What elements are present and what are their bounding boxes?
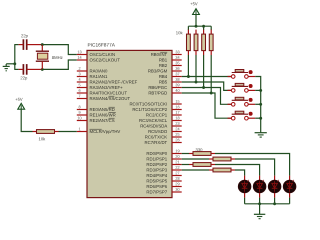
wire RB5 to button 2 xyxy=(182,82,232,90)
U1 pin 10 stub xyxy=(77,120,87,122)
svg-text:RC1/T1OSI/CCP2: RC1/T1OSI/CCP2 xyxy=(132,107,167,112)
IC U1 PIC16F877A body xyxy=(87,50,172,197)
ground crystal side xyxy=(5,64,7,66)
svg-text:RB5: RB5 xyxy=(159,79,168,84)
svg-text:5: 5 xyxy=(78,83,80,87)
R2 pin stub bottom xyxy=(195,51,197,55)
svg-text:RD5/PSP5: RD5/PSP5 xyxy=(146,178,167,183)
U1 pin 1 stub xyxy=(77,131,87,133)
U1 pin 25 stub xyxy=(172,136,182,138)
R3 pin stub top xyxy=(203,30,205,34)
wire R9 to LED D1 xyxy=(235,170,245,176)
svg-text:22p: 22p xyxy=(20,75,28,80)
svg-text:RD6/PSP6: RD6/PSP6 xyxy=(146,184,167,189)
ground LEDs xyxy=(259,204,261,215)
svg-text:13: 13 xyxy=(77,50,81,54)
svg-text:39: 39 xyxy=(175,83,179,87)
svg-text:RD0/PSP0: RD0/PSP0 xyxy=(146,151,167,156)
svg-text:10: 10 xyxy=(77,116,81,120)
wire RD1 to resistor xyxy=(182,158,209,160)
R9 pin stub right xyxy=(231,169,235,171)
svg-text:OSC1/CLKIN: OSC1/CLKIN xyxy=(89,52,115,57)
svg-text:RB3/PGM: RB3/PGM xyxy=(148,68,168,73)
wire LED D2 cathode to bus xyxy=(259,198,261,204)
svg-text:3: 3 xyxy=(78,72,80,76)
U1 pin 18 stub xyxy=(172,120,182,122)
junction R3 on RB6 wire xyxy=(202,86,205,89)
R4 pin stub top xyxy=(210,30,212,34)
svg-text:RD2/PSP2: RD2/PSP2 xyxy=(146,162,167,167)
wire RB4 to button 1 xyxy=(182,76,232,78)
resistor R3 10k pull-up xyxy=(202,34,206,51)
svg-text:25: 25 xyxy=(175,133,179,137)
svg-text:RB1: RB1 xyxy=(159,57,168,62)
push button SW4 xyxy=(228,117,232,119)
resistor R5 10k (MCLR pull-up) xyxy=(37,130,55,134)
wire RD2 to resistor xyxy=(182,164,189,166)
U1 pin 15 stub xyxy=(172,103,182,105)
svg-text:RA0/AN0: RA0/AN0 xyxy=(89,69,108,74)
R1 pin stub top xyxy=(187,30,189,34)
svg-text:30: 30 xyxy=(175,188,179,192)
svg-text:RC0/T1OSO/T1CKI: RC0/T1OSO/T1CKI xyxy=(129,101,167,106)
svg-text:34: 34 xyxy=(175,56,179,60)
svg-text:15: 15 xyxy=(175,100,179,104)
svg-text:26: 26 xyxy=(175,138,179,142)
R2 pin stub top xyxy=(195,30,197,34)
power +5V symbol (buttons) xyxy=(193,9,200,15)
wire bus drop col1 xyxy=(187,26,189,30)
svg-text:8MHz: 8MHz xyxy=(52,55,63,60)
crystal X1 8MHz xyxy=(41,45,43,52)
svg-text:16: 16 xyxy=(175,105,179,109)
svg-text:6: 6 xyxy=(78,89,80,93)
svg-text:RE1/AN6/WR: RE1/AN6/WR xyxy=(89,113,115,118)
LED D1 xyxy=(244,176,246,181)
svg-text:RD3/PSP3: RD3/PSP3 xyxy=(146,167,167,172)
R6 pin stub left xyxy=(189,153,193,155)
LED D4 xyxy=(289,176,291,181)
U1 pin 21 stub xyxy=(172,164,182,166)
R4 pin stub bottom xyxy=(210,51,212,55)
svg-text:22: 22 xyxy=(175,166,179,170)
U1 pin 33 stub xyxy=(172,54,182,56)
LED D2 xyxy=(259,176,261,181)
wire R1 to RB4 row xyxy=(187,55,189,77)
svg-text:OSC2/CLKOUT: OSC2/CLKOUT xyxy=(89,58,120,63)
junction R4 on RB7 wire xyxy=(210,92,213,95)
svg-text:RC7/RX/DT: RC7/RX/DT xyxy=(145,140,168,145)
pin label overline INT xyxy=(160,51,167,53)
push button SW2 xyxy=(228,89,232,91)
U1 pin 14 stub xyxy=(77,59,87,61)
pin label overline xyxy=(109,117,115,119)
wire button to bus xyxy=(255,89,261,91)
U1 pin 36 stub xyxy=(172,70,182,72)
svg-text:24: 24 xyxy=(175,127,179,131)
junction LED bus 1 xyxy=(258,202,261,205)
wire R2 to RB5 row xyxy=(195,55,197,82)
ground buttons xyxy=(255,132,267,134)
junction R2 on RB5 wire xyxy=(195,81,198,84)
resistor R4 10k pull-up xyxy=(209,34,213,51)
wire RD3 to resistor xyxy=(182,169,209,171)
wire ground tap xyxy=(6,63,15,65)
svg-text:4: 4 xyxy=(78,78,80,82)
svg-text:RC4/SDI/SDA: RC4/SDI/SDA xyxy=(140,123,167,128)
resistor R7 330 xyxy=(213,157,231,161)
U1 pin 8 stub xyxy=(77,109,87,111)
R6 pin stub right xyxy=(211,153,215,155)
resistor R6 330 xyxy=(193,152,211,156)
svg-text:37: 37 xyxy=(175,72,179,76)
U1 pin 2 stub xyxy=(77,70,87,72)
svg-text:RE0/AN5/RD: RE0/AN5/RD xyxy=(89,107,114,112)
svg-text:MCLR/Vpp/THV: MCLR/Vpp/THV xyxy=(89,129,120,134)
U1 pin 40 stub xyxy=(172,92,182,94)
wire LED D3 cathode to bus xyxy=(274,198,276,204)
svg-text:RA2/AN2/VREF-/CVREF: RA2/AN2/VREF-/CVREF xyxy=(89,80,137,85)
svg-text:10k: 10k xyxy=(38,136,46,141)
junction button bus xyxy=(259,117,262,120)
svg-text:36: 36 xyxy=(175,67,179,71)
junction crystal bottom xyxy=(41,68,44,71)
svg-text:1: 1 xyxy=(78,127,80,131)
svg-text:RC2/CCP1: RC2/CCP1 xyxy=(146,112,168,117)
junction bus col2 xyxy=(195,25,198,28)
R8 pin stub right xyxy=(211,164,215,166)
svg-text:2: 2 xyxy=(78,67,80,71)
R5 pin stub right xyxy=(55,131,59,133)
svg-text:RB2: RB2 xyxy=(159,63,168,68)
U1 pin 9 stub xyxy=(77,114,87,116)
U1 pin 4 stub xyxy=(77,81,87,83)
wire +5V bus xyxy=(188,25,211,27)
pin label overline xyxy=(109,95,115,97)
junction button bus xyxy=(259,103,262,106)
wire LED D1 cathode to bus xyxy=(244,198,246,204)
junction LED bus 2 xyxy=(273,202,276,205)
push button SW1 xyxy=(228,76,232,78)
R7 pin stub right xyxy=(231,158,235,160)
wire LED D4 cathode to bus xyxy=(289,198,291,204)
junction caps-ground xyxy=(13,62,16,65)
junction crystal top xyxy=(41,43,44,46)
pin label overline xyxy=(109,112,116,114)
svg-text:27: 27 xyxy=(175,171,179,175)
capacitor C1 22p xyxy=(22,39,24,50)
wire bus drop col4 xyxy=(210,26,212,30)
wire R7 to LED D3 xyxy=(235,159,275,176)
U1 pin 16 stub xyxy=(172,109,182,111)
wire RD0 to resistor xyxy=(182,153,189,155)
U1 pin 6 stub xyxy=(77,92,87,94)
wire R6 to LED D4 xyxy=(215,154,290,176)
wire bus drop col3 xyxy=(203,26,205,30)
U1 pin 7 stub xyxy=(77,98,87,100)
U1 pin 34 stub xyxy=(172,59,182,61)
wire C2 to crystal bottom xyxy=(27,68,43,70)
svg-text:23: 23 xyxy=(175,122,179,126)
junction button bus xyxy=(259,89,262,92)
junction bus col3 xyxy=(202,25,205,28)
wire button to bus xyxy=(255,103,261,105)
capacitor C2 22p xyxy=(22,64,24,75)
wire R3 to RB6 row xyxy=(203,55,205,88)
svg-text:38: 38 xyxy=(175,78,179,82)
wire LED ground bus xyxy=(245,203,290,205)
resistor R2 10k pull-up xyxy=(194,34,198,51)
U1 pin 17 stub xyxy=(172,114,182,116)
wire bus to ground xyxy=(260,118,262,133)
svg-text:33: 33 xyxy=(175,50,179,54)
svg-text:35: 35 xyxy=(175,61,179,65)
R5 pin stub left xyxy=(33,131,37,133)
R9 pin stub left xyxy=(209,169,213,171)
wire button bus right xyxy=(255,77,261,119)
svg-text:RB4: RB4 xyxy=(159,74,168,79)
U1 pin 23 stub xyxy=(172,125,182,127)
svg-text:RA3/AN3/VREF+: RA3/AN3/VREF+ xyxy=(89,85,123,90)
wire RB7 to button 4 xyxy=(182,93,232,118)
svg-text:28: 28 xyxy=(175,177,179,181)
U1 pin 20 stub xyxy=(172,158,182,160)
svg-text:17: 17 xyxy=(175,111,179,115)
U1 pin 13 stub xyxy=(77,54,87,56)
R7 pin stub left xyxy=(209,158,213,160)
svg-text:40: 40 xyxy=(175,89,179,93)
wire +5V stem to bus xyxy=(195,14,197,26)
power +5V symbol (MCLR) xyxy=(18,103,25,109)
svg-text:20: 20 xyxy=(175,155,179,159)
U1 pin 24 stub xyxy=(172,131,182,133)
svg-text:22p: 22p xyxy=(21,33,29,38)
wire C1 left xyxy=(15,44,19,46)
svg-text:RB7/PGD: RB7/PGD xyxy=(148,90,167,95)
pin label overline xyxy=(90,128,102,130)
pin label overline xyxy=(109,106,115,108)
svg-text:7: 7 xyxy=(78,94,80,98)
svg-text:RD7/PSP7: RD7/PSP7 xyxy=(146,189,167,194)
svg-text:RB6/PGC: RB6/PGC xyxy=(148,85,167,90)
svg-text:RC6/TX/CK: RC6/TX/CK xyxy=(145,134,168,139)
wire crystal bottom to OSC2 xyxy=(42,60,77,69)
wire +5V to R5 xyxy=(21,109,32,132)
U1 pin 19 stub xyxy=(172,153,182,155)
wire button to bus xyxy=(255,117,261,119)
U1 pin 30 stub xyxy=(172,191,182,193)
svg-text:21: 21 xyxy=(175,160,179,164)
wire R8 to LED D2 xyxy=(215,165,260,176)
svg-text:RA5/AN4/SS/C2OUT: RA5/AN4/SS/C2OUT xyxy=(89,96,130,101)
R3 pin stub bottom xyxy=(203,51,205,55)
svg-text:9: 9 xyxy=(78,111,80,115)
wire R4 to RB7 row xyxy=(210,55,212,93)
U1 pin 26 stub xyxy=(172,142,182,144)
svg-text:8: 8 xyxy=(78,105,80,109)
svg-text:RD1/PSP1: RD1/PSP1 xyxy=(146,156,167,161)
svg-text:+5V: +5V xyxy=(190,1,198,6)
U1 pin 27 stub xyxy=(172,175,182,177)
resistor R8 330 xyxy=(193,163,211,167)
resistor R9 330 xyxy=(213,168,231,172)
wire R5 to MCLR pin xyxy=(59,131,77,133)
svg-text:PIC16F877A: PIC16F877A xyxy=(87,43,115,49)
wire crystal top to OSC1 xyxy=(42,45,77,55)
svg-text:29: 29 xyxy=(175,182,179,186)
svg-text:+5V: +5V xyxy=(15,97,23,102)
svg-text:RC3/SCK/SCL: RC3/SCK/SCL xyxy=(139,118,168,123)
U1 pin 22 stub xyxy=(172,169,182,171)
svg-text:RA4/T0CKI/C1OUT: RA4/T0CKI/C1OUT xyxy=(89,91,127,96)
junction R1 on RB4 wire xyxy=(187,75,190,78)
U1 pin 35 stub xyxy=(172,65,182,67)
wire C1 to crystal top xyxy=(27,44,43,46)
U1 pin 5 stub xyxy=(77,87,87,89)
wire C2 left xyxy=(15,68,19,70)
svg-text:RE2/AN7/CS: RE2/AN7/CS xyxy=(89,118,114,123)
U1 pin 29 stub xyxy=(172,186,182,188)
svg-text:RC5/SDO: RC5/SDO xyxy=(148,129,168,134)
svg-text:RD4/PSP4: RD4/PSP4 xyxy=(146,173,167,178)
LED D3 xyxy=(274,176,276,181)
svg-text:RA1/AN1: RA1/AN1 xyxy=(89,74,108,79)
svg-text:14: 14 xyxy=(77,56,81,60)
R8 pin stub left xyxy=(189,164,193,166)
R1 pin stub bottom xyxy=(187,51,189,55)
U1 pin 39 stub xyxy=(172,87,182,89)
svg-text:RB0/INT: RB0/INT xyxy=(151,52,168,57)
U1 pin 38 stub xyxy=(172,81,182,83)
U1 pin 3 stub xyxy=(77,76,87,78)
svg-text:18: 18 xyxy=(175,116,179,120)
wire left vertical joining caps xyxy=(14,44,16,70)
wire RB6 to button 3 xyxy=(182,88,232,105)
resistor R1 10k pull-up xyxy=(187,34,191,51)
svg-text:10k: 10k xyxy=(176,30,184,35)
U1 pin 37 stub xyxy=(172,76,182,78)
push button SW3 xyxy=(228,103,232,105)
U1 pin 28 stub xyxy=(172,180,182,182)
svg-text:19: 19 xyxy=(175,149,179,153)
